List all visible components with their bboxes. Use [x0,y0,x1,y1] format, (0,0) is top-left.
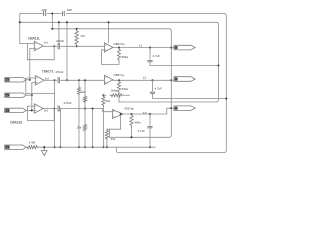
resistor R4 560 below U2 output [117,80,120,93]
connector OUT2 [174,77,195,82]
connector IN3 [5,108,27,112]
capacitor C6 4.7uF ch2 shunt [150,92,155,93]
capacitor C7 470uF coupling ch3 [58,106,59,112]
wire ch3 row into connector [171,107,174,109]
label TBA1Y1 [42,69,54,73]
wire R2 bottom feedback back to U1 inverting input [102,50,119,65]
node drop lands on ch2 row [66,79,68,81]
svg-text:3.4M: 3.4M [29,141,36,145]
wire R9 bottom to bus3 bottom wrap [131,127,133,137]
svg-text:530a: 530a [122,87,129,91]
wire R3 to ground bus [78,95,80,147]
node A2 feedback to output [54,79,56,81]
op-amp A3 TBA231 ch3 [34,104,43,113]
label R5 value [111,89,118,93]
node U2 output resistor tap [118,79,120,81]
label R10 value [111,137,116,141]
label R9 value [134,120,141,124]
wire A1 output to coupling cap [43,45,56,47]
svg-text:4.7uF: 4.7uF [138,129,146,133]
node R1 bottom on ch1 row [76,45,78,47]
node R10 ground [106,146,108,148]
node left rail on bus2 [19,21,21,23]
label 470uF C7 [64,101,72,105]
connector IN1 [5,78,27,82]
wire A2 feedback loop [26,78,55,94]
capacitor C2 33P [62,11,64,16]
svg-text:33P: 33P [67,8,72,12]
resistor R5 horizontal from mid node [103,94,129,97]
svg-text:4.7uF: 4.7uF [155,87,163,91]
node A3 feedback to output [53,107,55,109]
node loop column ground [54,146,56,148]
op-amp A2 input marks [36,78,37,83]
label 1nf A1 [44,41,48,45]
node R1 top on bus3 [76,28,78,30]
svg-text:5k6a: 5k6a [111,89,118,93]
svg-text:470uF: 470uF [64,101,72,105]
wire ch2 row from cap to buffer U2 [61,79,105,81]
op-amp A1 input marks [35,44,36,50]
resistor R11 3.4M series ground [26,146,38,149]
node divider ground [84,146,86,148]
svg-text:10k: 10k [77,126,82,130]
connector IN2 [5,93,27,97]
node C8 ground [149,146,151,148]
node A3 input column on IN3 row [31,109,33,111]
wire C6 bottom to outer wrap [153,94,227,99]
node x92 on ch3 row [92,107,94,109]
svg-text:1nf: 1nf [45,77,49,81]
node junction third bus start [51,28,53,30]
wire IN2toIN3 column [31,95,33,110]
node cap column ground [59,146,61,148]
label TBA136 [10,120,22,124]
svg-text:10k: 10k [81,90,86,94]
connector OUT1 [174,45,195,50]
label U1 type [113,42,125,46]
label 4.7uF C8 [138,129,146,133]
wire R4 bottom to bus2 bottom wrap [118,93,120,102]
wire ground bus [38,146,155,148]
node U3 feedback on output row [120,113,122,115]
wire supply drop from bus2 to buffer U1 top [108,22,110,43]
wire U3 output row bending up to connector [122,108,172,114]
label 1nf A3 [44,109,48,113]
svg-text:470uF: 470uF [55,70,63,74]
svg-text:DBA13L: DBA13L [28,36,40,40]
wire IN2 lead [26,94,32,96]
svg-text:4.7uF: 4.7uF [153,54,161,58]
wire drop from bus2 toward C3 coupling cap [58,22,60,44]
op-amp U3 buffer ch3 [113,110,124,119]
node divider top on ch2 row [84,79,86,81]
svg-text:47k: 47k [80,34,85,38]
op-amp U2 buffer ch2 [104,75,113,84]
op-amp U2 input marks [105,78,106,83]
svg-text:60a: 60a [106,99,111,103]
connector OUT3 [174,106,195,111]
node ch1 row meets right wrap [170,47,172,49]
label L3 inductor [143,111,147,115]
capacitor C5 470uF coupling ch2 [58,77,59,83]
node R6 ground [102,146,104,148]
resistor R1 47k from bus3 to ch1 node [75,29,78,47]
svg-text:470uF: 470uF [56,39,64,43]
node x92 ground [92,146,94,148]
wire A3 noninverting input to IN3 row [26,109,34,111]
node A1 input column lands on IN1 row [29,79,31,81]
wire third bus wrapping down to bottom feedback line [52,29,171,138]
op-amp A3 input marks [35,106,36,111]
node junction top cap link [51,12,53,14]
node drop at bus2 x67 [66,21,68,23]
wire R6 to ground bus [102,107,104,148]
node C6 return on outer vertical [225,98,227,100]
node ground symbol junction [43,146,45,148]
label 4.7uF C6 [155,87,163,91]
wire A2 output to coupling cap [44,79,56,81]
wire C4 bottom to bus2 wrap [150,62,218,65]
wire A2 noninverting input down to IN2 row [32,83,36,96]
svg-text:DBA136: DBA136 [10,120,22,124]
op-amp A1 TBA231 [34,41,43,50]
connector GND input [5,145,27,149]
svg-text:OB97Cp: OB97Cp [113,42,125,46]
label TBA231 [28,36,40,40]
svg-text:OB97uy: OB97uy [113,73,124,77]
wire A3 feedback loop [27,106,54,120]
wire U2 output row [113,79,171,81]
op-amp A2 TBA231 ch2 [35,76,44,85]
node C4 return on bus2 vertical [217,64,219,66]
label U2 type [113,73,124,77]
wire ch1 row from cap to buffer U1 [61,45,105,47]
node A1 feedback to output [53,45,55,47]
node U3 output resistor tap [130,113,132,115]
node ch2 bias resistor tap [78,79,80,81]
label 560 R2 [122,55,129,59]
label 3.4M R11 [29,141,36,145]
resistor R3 10k ch2 bias [77,80,80,95]
resistor R2 560 below U1 output [117,48,120,62]
resistor R9 below U3 output [130,114,133,127]
wire U1 output row to output network [113,47,171,49]
label 470uF C5 [55,70,63,74]
svg-text:L1: L1 [139,43,143,47]
node U1 output resistor tap [118,47,120,49]
node ch2 shunt cap tap [151,79,153,81]
ground symbol [41,147,47,155]
node ch2 row meets right wrap [170,79,172,81]
wire A1 feedback loop [27,44,54,60]
svg-text:1nf: 1nf [44,41,48,45]
svg-text:1nf: 1nf [44,109,48,113]
node ch1 shunt cap tap [149,47,151,49]
op-amp U1 buffer ch1 [104,43,113,52]
svg-text:TBA1Y1: TBA1Y1 [42,69,54,73]
node R3 ground [78,146,80,148]
node ch3 shunt cap tap [149,113,151,115]
wire vertical from A2 loop to ground [54,94,56,148]
svg-text:4297up: 4297up [124,107,134,111]
wire ch2 shunt cap lead down [152,80,154,90]
label 4.7uF C4 [153,54,161,58]
op-amp U1 input marks [105,45,106,50]
wire vertical link between top caps down to third bus [51,14,53,29]
wire left rail from top bus to opamp A1 inverting input [20,14,28,44]
svg-text:560a: 560a [122,55,129,59]
node mid bias node [102,94,104,96]
capacitor C8 4.7uF ch3 shunt [147,127,152,128]
node drop at bus2 x59 [58,21,60,23]
wire ch1 shunt cap lead down [149,48,151,60]
wire ch1 row into connector [171,47,174,49]
wire C8 bottom to ground bus [149,128,151,147]
capacitor C1 33P [44,11,46,16]
wire vertical from ch3 cap node to ground [59,109,61,148]
wire long drop from bus2 to channel2 signal row [66,22,68,80]
wire U3 feedback from wrap corner [110,114,121,137]
op-amp U3 input marks [113,112,114,117]
label R6 value [106,99,111,103]
capacitor C3 470uF coupling ch1 [58,43,59,49]
label L1 inductor [139,43,143,47]
node A2 input column on IN2 row [31,94,33,96]
svg-text:43a: 43a [111,137,116,141]
wire A3 output to coupling cap [43,108,56,110]
wire ch3 shunt cap lead down [149,114,151,125]
node ch3 row meets right wrap [170,107,172,109]
wire +V top bus with right-side wrap to ground bus [20,14,227,153]
node R9 on wrap [130,136,132,138]
node supply drop at bus2 x108 [107,21,109,23]
wire second bus wrapping down right side [20,22,219,102]
wire IN1 lead [26,79,30,81]
wire ch2 row into connector [171,79,174,81]
wire long vertical divider column x85 [83,80,86,147]
wire A1 noninverting input down to input node [30,48,35,79]
svg-text:33P: 33P [42,8,47,12]
label L2 inductor [143,76,147,80]
label 47k [80,34,85,38]
label 1nf A2 [45,77,49,81]
label 470uF C3 [56,39,64,43]
label 33P for C2 [67,8,72,12]
label 560 R4 [122,87,129,91]
node divider mid on ch3 row [84,107,86,109]
resistor R6 below mid node [102,95,105,106]
svg-text:1X: 1X [143,111,147,115]
svg-text:440a: 440a [134,120,141,124]
label 10k lower divider [77,126,82,130]
wire ch3 row from cap toward buffer U3 [61,109,113,112]
label U3 type [124,107,134,111]
label 33P for C1 [42,8,47,12]
wire vertical x92 ch3 row to ground [92,109,94,148]
label 10k R3 [81,90,86,94]
resistor R10 feedback to ground [105,129,109,147]
capacitor C4 4.7uF ch1 shunt [147,61,152,62]
svg-text:L2: L2 [143,76,147,80]
